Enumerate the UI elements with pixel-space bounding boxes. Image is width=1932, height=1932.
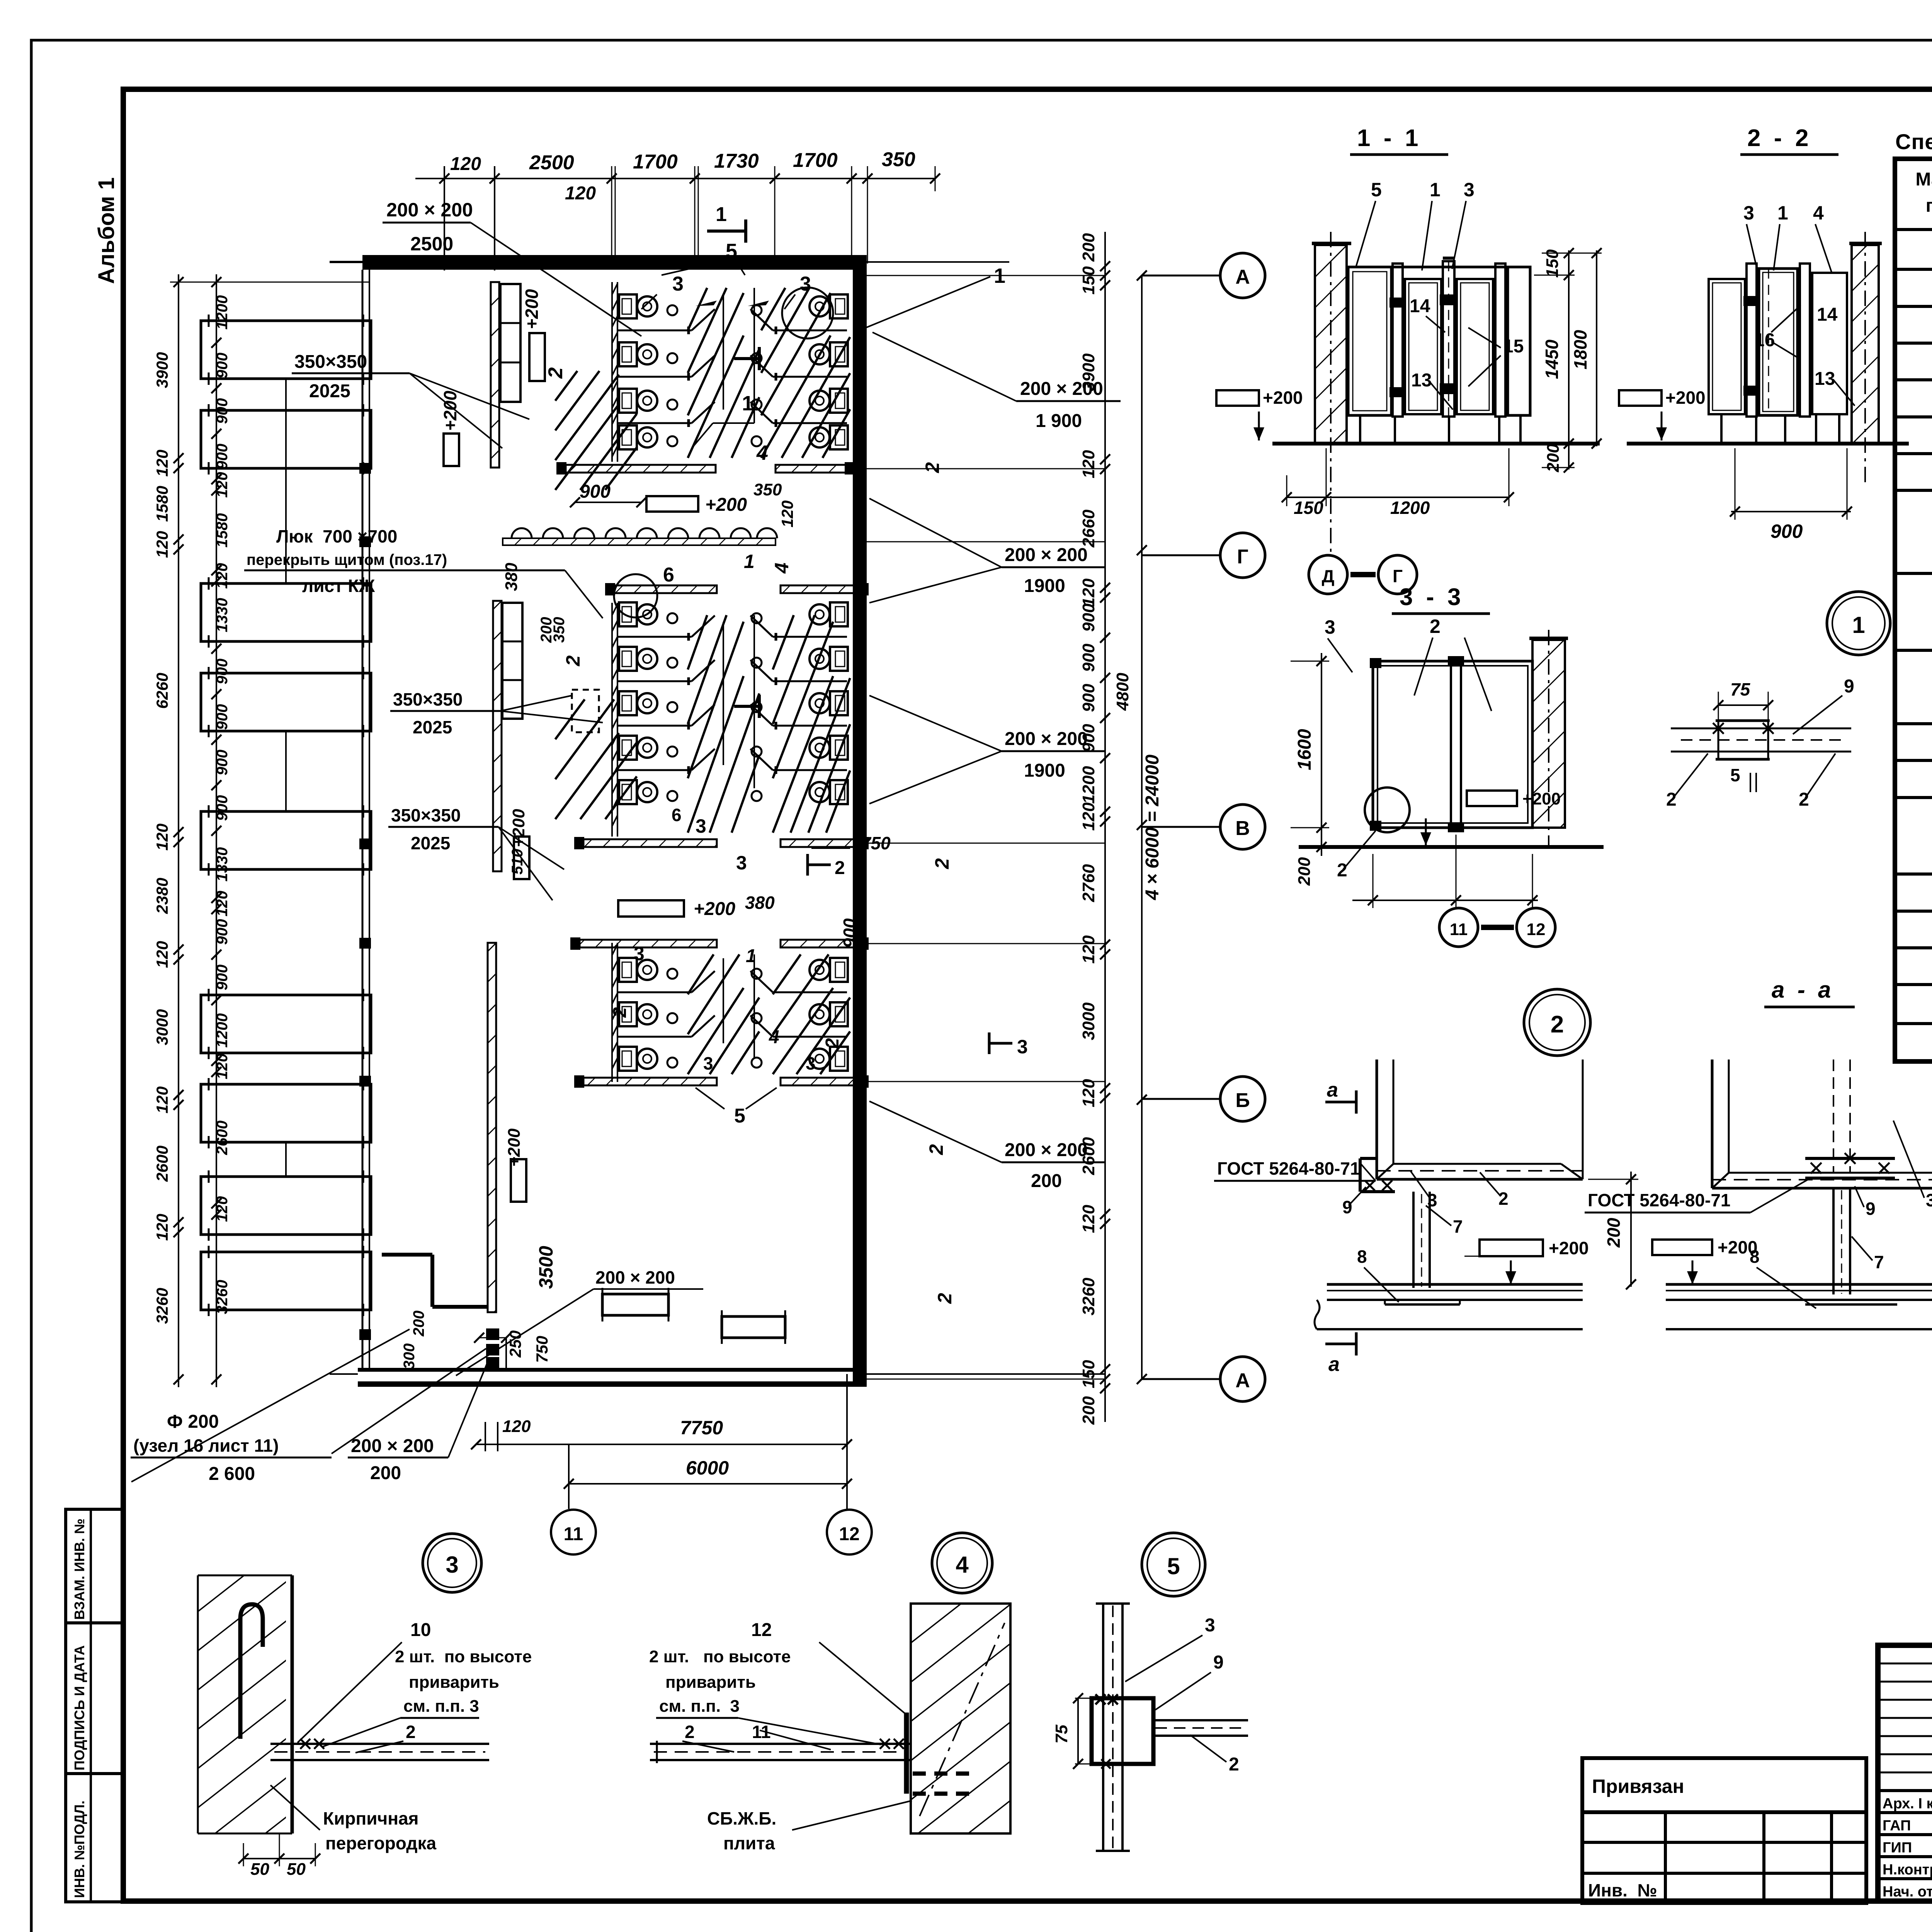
plan bottom wall (358, 1368, 867, 1372)
lower left L wall (382, 1253, 432, 1257)
svg-text:1: 1 (744, 551, 755, 572)
svg-text:10: 10 (410, 1620, 431, 1640)
svg-text:3 - 3: 3 - 3 (1400, 584, 1461, 611)
svg-text:200: 200 (1604, 1218, 1624, 1248)
svg-text:50: 50 (287, 1860, 306, 1879)
svg-text:1450: 1450 (1542, 339, 1562, 379)
detail 4 rail (650, 1743, 911, 1745)
svg-text:ГАП: ГАП (1883, 1818, 1911, 1834)
svg-text:+200: +200 (440, 391, 460, 431)
svg-text:3: 3 (736, 852, 747, 874)
svg-text:Д: Д (1322, 566, 1335, 586)
svg-text:1700: 1700 (793, 149, 838, 172)
svg-text:900: 900 (214, 750, 231, 776)
svg-text:Нач. отд.: Нач. отд. (1883, 1884, 1932, 1900)
svg-text:120: 120 (214, 1054, 231, 1080)
section 3-3 bottom dim (1352, 900, 1538, 901)
svg-text:200 × 200: 200 × 200 (386, 199, 473, 221)
block B top partition (614, 585, 717, 593)
svg-text:+200: +200 (705, 495, 747, 515)
svg-text:Г: Г (1237, 546, 1248, 568)
left outer dim chain (178, 274, 179, 1387)
svg-text:3900: 3900 (153, 352, 171, 388)
svg-text:3: 3 (1017, 1036, 1028, 1058)
svg-text:13: 13 (1815, 369, 1835, 389)
svg-text:(узел 16 лист 11): (узел 16 лист 11) (133, 1435, 279, 1456)
svg-text:Привязан: Привязан (1592, 1776, 1684, 1797)
block B right hatch (773, 615, 794, 670)
svg-text:5: 5 (726, 240, 737, 263)
svg-text:1580: 1580 (153, 486, 171, 522)
axis circle A top (1142, 275, 1220, 277)
extension lines to axis chain (867, 275, 1105, 276)
svg-text:ГИП: ГИП (1883, 1840, 1912, 1856)
svg-text:6000: 6000 (686, 1457, 729, 1479)
svg-text:5: 5 (734, 1105, 745, 1127)
svg-text:900: 900 (1079, 643, 1098, 672)
aa left post (1412, 1192, 1415, 1288)
svg-text:4: 4 (769, 1027, 779, 1048)
svg-text:4800: 4800 (1113, 673, 1132, 711)
svg-text:380: 380 (745, 893, 775, 913)
svg-text:1: 1 (716, 203, 727, 226)
axis circle V (1142, 826, 1220, 828)
svg-text:1 900: 1 900 (1036, 411, 1082, 431)
svg-text:приварить: приварить (409, 1673, 499, 1692)
wall posts lower (486, 1328, 499, 1340)
section 3-3 mid post (1451, 659, 1461, 829)
svg-text:350×350: 350×350 (391, 805, 461, 825)
svg-text:380: 380 (502, 563, 521, 591)
svg-text:900: 900 (214, 398, 231, 424)
svg-text:2500: 2500 (410, 233, 453, 255)
svg-text:13: 13 (1411, 370, 1432, 391)
svg-text:3: 3 (634, 943, 645, 964)
node 1 circle (1827, 592, 1890, 655)
svg-text:поз.: поз. (1926, 196, 1932, 216)
svg-text:1700: 1700 (633, 151, 678, 173)
block A aisle verticals (723, 294, 724, 410)
svg-text:350: 350 (551, 617, 568, 643)
section 1-1 legs (1359, 415, 1361, 444)
svg-text:1600: 1600 (1294, 729, 1315, 770)
svg-text:8: 8 (1750, 1247, 1760, 1267)
plan top wall (362, 255, 867, 270)
left wall junction blocks (359, 463, 371, 474)
right axis dim chain (1104, 268, 1106, 1387)
top dim extension verticals (444, 166, 445, 270)
svg-text:Спецификация щитов и стальных: Спецификация щитов и стальных элементов … (1895, 129, 1932, 154)
svg-text:2: 2 (925, 1144, 947, 1155)
svg-text:лист КЖ: лист КЖ (302, 576, 375, 596)
svg-text:4: 4 (756, 441, 768, 464)
block B hatch luk rect (572, 690, 599, 732)
block C top partition (580, 940, 717, 947)
section mark 3 block C (989, 1042, 1012, 1045)
aa right post (1832, 1188, 1835, 1294)
title block revision grid (1878, 1645, 1932, 1901)
svg-text:900: 900 (214, 704, 231, 730)
svg-text:120: 120 (1079, 450, 1098, 478)
detail 3 wall (198, 1575, 286, 1833)
svg-text:120: 120 (1079, 935, 1098, 964)
svg-text:2: 2 (610, 1007, 630, 1018)
svg-text:3260: 3260 (153, 1288, 171, 1324)
block A right hatch (761, 288, 785, 330)
svg-text:1: 1 (1430, 179, 1440, 201)
right chain 200 top (1100, 261, 1110, 271)
section 1-1 plus200 (1216, 390, 1259, 406)
title block frame (1878, 1645, 1932, 1901)
bottom room pit 1 (602, 1294, 668, 1315)
block B aisle T mark (734, 705, 759, 708)
svg-text:900: 900 (214, 795, 231, 821)
detail 3 rail (270, 1743, 489, 1745)
svg-text:2 шт. по высоте: 2 шт. по высоте (649, 1647, 791, 1666)
svg-text:120: 120 (214, 1196, 231, 1222)
svg-text:200 × 200: 200 × 200 (1020, 379, 1103, 399)
svg-text:а: а (1328, 1353, 1340, 1376)
svg-text:120: 120 (1079, 1079, 1098, 1107)
section 1-1 right dims (1568, 250, 1570, 469)
aa right base plate (1805, 1303, 1897, 1306)
svg-text:+200: +200 (522, 289, 542, 329)
svg-text:1: 1 (746, 946, 756, 966)
hatched partition block B (493, 601, 502, 871)
svg-text:120: 120 (214, 891, 231, 917)
right 24000 line (1141, 276, 1143, 1379)
svg-text:50: 50 (250, 1860, 269, 1879)
block A bottom partition left (566, 465, 716, 473)
section 3-3 floor (1299, 845, 1604, 849)
stamp column table (66, 1509, 124, 1902)
axis circle B (1142, 1098, 1220, 1100)
svg-text:1730: 1730 (714, 150, 759, 172)
section 2-2 floor (1627, 442, 1909, 446)
block C aisle verticals (723, 958, 724, 1043)
svg-text:+200: +200 (509, 809, 528, 847)
axis circle A bottom (1142, 1378, 1220, 1380)
svg-text:2: 2 (835, 858, 845, 878)
block B cabinet cells (502, 603, 522, 719)
svg-text:ВЗАМ. ИНВ. №: ВЗАМ. ИНВ. № (71, 1519, 87, 1620)
detail 3 hook (240, 1604, 263, 1739)
privyazan table (1582, 1758, 1866, 1903)
lower dim lines (505, 1337, 507, 1370)
axis circle 12 (827, 1510, 872, 1554)
svg-text:200 × 200: 200 × 200 (1005, 1140, 1088, 1160)
svg-text:СБ.Ж.Б.: СБ.Ж.Б. (707, 1808, 776, 1828)
aa right floor slab (1666, 1283, 1932, 1286)
section 2-2 pier axis dashdot (1864, 232, 1866, 483)
svg-text:перекрыть щитом (поз.17): перекрыть щитом (поз.17) (247, 551, 447, 568)
svg-text:300: 300 (401, 1344, 418, 1369)
svg-text:3: 3 (1926, 1190, 1932, 1210)
block C floor drains left (667, 969, 677, 979)
axis circle G (1142, 554, 1220, 556)
svg-text:120: 120 (214, 563, 231, 589)
bottom dim 7750 (476, 1444, 847, 1445)
svg-text:200 × 200: 200 × 200 (595, 1267, 675, 1287)
detail 4 plate (904, 1713, 909, 1794)
detail 5 circle (1142, 1533, 1205, 1596)
block A toilets left (619, 294, 657, 318)
block A central wall (611, 282, 613, 462)
block B toilets left (619, 602, 657, 626)
svg-text:+200: +200 (1522, 789, 1561, 808)
svg-text:1580: 1580 (214, 513, 231, 548)
block C aisle hatch (688, 954, 714, 994)
section 3-3 detail circle (1365, 787, 1410, 832)
svg-text:плита: плита (723, 1833, 775, 1853)
svg-text:1: 1 (742, 392, 753, 415)
svg-text:2025: 2025 (309, 381, 350, 401)
svg-text:7: 7 (1453, 1216, 1463, 1236)
svg-text:120: 120 (153, 1214, 171, 1241)
svg-text:а: а (1327, 1079, 1338, 1101)
svg-text:перегородка: перегородка (325, 1833, 437, 1853)
section mark 2 mid (808, 864, 831, 866)
svg-text:2500: 2500 (529, 151, 574, 174)
block C stall partitions left (617, 992, 692, 993)
svg-text:а - а: а - а (1772, 977, 1831, 1003)
svg-text:14: 14 (1410, 296, 1430, 316)
svg-text:120: 120 (153, 823, 171, 850)
block B toilets right (810, 602, 848, 626)
section 3-3 wall (1532, 640, 1565, 828)
svg-text:120: 120 (450, 154, 481, 174)
svg-text:2600: 2600 (214, 1121, 231, 1155)
block A bottom partition right (776, 465, 848, 473)
svg-text:1330: 1330 (214, 847, 231, 882)
svg-text:А: А (1235, 1369, 1250, 1392)
node 1 bar (1671, 728, 1851, 730)
section 1-1 panels (1348, 266, 1530, 269)
svg-text:+200: +200 (694, 899, 735, 919)
section 2-2 legs (1720, 415, 1723, 444)
block B floor drains right (752, 613, 762, 623)
svg-text:11: 11 (564, 1524, 583, 1544)
section 3-3 panel (1373, 661, 1532, 828)
svg-text:ПОДПИСЬ И ДАТА: ПОДПИСЬ И ДАТА (71, 1645, 87, 1770)
block A floor drains right (752, 305, 762, 315)
svg-text:150: 150 (1079, 1360, 1098, 1388)
block A floor drains left (667, 305, 677, 315)
svg-text:1200: 1200 (1390, 498, 1430, 518)
aa left hook plate (1359, 1158, 1362, 1192)
svg-text:Ф 200: Ф 200 (167, 1412, 219, 1432)
block C floor drains right (752, 969, 762, 979)
svg-text:350×350: 350×350 (294, 352, 367, 372)
section mark 1 top (707, 230, 746, 233)
svg-text:1: 1 (1777, 202, 1788, 224)
svg-text:6: 6 (663, 564, 674, 586)
section 1-1 pier axis dashdot (1330, 232, 1332, 497)
axis circles 11 12 pair (1439, 908, 1478, 947)
svg-text:ГОСТ 5264-80-71: ГОСТ 5264-80-71 (1588, 1190, 1731, 1210)
block A partition end blocks (556, 462, 566, 474)
svg-text:2: 2 (1551, 1011, 1564, 1038)
plan right wall (853, 255, 867, 1385)
svg-text:200 × 200: 200 × 200 (1005, 545, 1088, 565)
svg-text:120: 120 (153, 531, 171, 558)
svg-text:Н.контр.: Н.контр. (1883, 1862, 1932, 1878)
svg-text:750: 750 (533, 1336, 551, 1363)
svg-text:3: 3 (1464, 179, 1475, 201)
svg-text:2: 2 (1229, 1754, 1239, 1775)
svg-text:2 шт. по высоте: 2 шт. по высоте (395, 1647, 532, 1666)
svg-text:Марка: Марка (1915, 169, 1932, 190)
svg-text:2380: 2380 (153, 878, 171, 914)
detail 5 plate (1092, 1698, 1153, 1764)
svg-text:14: 14 (1817, 304, 1838, 325)
svg-text:1900: 1900 (1024, 760, 1065, 781)
svg-text:ГОСТ 5264-80-71: ГОСТ 5264-80-71 (1217, 1158, 1360, 1179)
svg-text:2: 2 (922, 462, 943, 473)
block B stall partitions left (617, 636, 692, 638)
plan bottom extension line (330, 1373, 358, 1375)
section 1-1 floor (1272, 442, 1600, 446)
svg-text:3: 3 (800, 273, 811, 295)
svg-text:2 600: 2 600 (209, 1464, 255, 1484)
svg-text:1 - 1: 1 - 1 (1357, 125, 1418, 151)
aa right weld plate (1805, 1157, 1895, 1160)
block A plus200 rect 1 (529, 333, 545, 381)
svg-text:9: 9 (1866, 1199, 1876, 1219)
svg-text:900: 900 (214, 444, 231, 469)
svg-text:2: 2 (931, 858, 953, 869)
svg-text:12: 12 (839, 1524, 859, 1544)
svg-text:75: 75 (1730, 679, 1751, 699)
dim 900 block A (575, 502, 641, 503)
svg-text:1: 1 (1852, 612, 1865, 638)
svg-text:120: 120 (1079, 1204, 1098, 1233)
svg-text:3: 3 (446, 1552, 458, 1578)
section 3-3 left dims (1321, 653, 1322, 856)
block A cabinet cells (500, 284, 520, 402)
svg-text:8: 8 (1357, 1247, 1367, 1267)
svg-text:2025: 2025 (411, 833, 450, 853)
svg-text:2: 2 (1430, 616, 1440, 637)
svg-text:120: 120 (153, 450, 171, 477)
svg-text:900: 900 (214, 353, 231, 379)
svg-text:11: 11 (1450, 920, 1468, 939)
svg-text:А: А (1235, 266, 1250, 288)
detail 5 dim 75 (1077, 1698, 1079, 1764)
svg-text:+200: +200 (1549, 1238, 1589, 1258)
svg-text:120: 120 (502, 1417, 531, 1436)
svg-text:см. п.п. 3: см. п.п. 3 (403, 1697, 479, 1716)
aa right inner dashes (1833, 1060, 1834, 1173)
svg-text:200: 200 (1079, 1396, 1098, 1425)
svg-text:3: 3 (1205, 1615, 1215, 1636)
section mark a lower (1325, 1343, 1356, 1345)
block A plus200 rect 2 (444, 434, 459, 466)
svg-text:200: 200 (1031, 1171, 1062, 1191)
svg-text:Б: Б (1235, 1089, 1250, 1112)
circle 2 detail (1524, 989, 1590, 1056)
leader 1 top right (864, 277, 990, 328)
detail 5 post (1102, 1604, 1104, 1851)
svg-text:120: 120 (153, 1087, 171, 1114)
svg-text:9: 9 (1844, 676, 1854, 697)
svg-text:ИНВ. №ПОДЛ.: ИНВ. №ПОДЛ. (71, 1801, 87, 1898)
aa right box (1712, 1060, 1932, 1188)
svg-text:2: 2 (562, 655, 584, 667)
washbasins (512, 528, 532, 538)
svg-text:6260: 6260 (153, 673, 171, 709)
svg-text:2: 2 (544, 367, 567, 379)
block C toilets right (810, 958, 848, 982)
svg-text:В: В (1235, 817, 1250, 840)
svg-text:3260: 3260 (1079, 1277, 1098, 1315)
detail 5 rail (1153, 1719, 1248, 1721)
svg-text:9: 9 (1342, 1197, 1352, 1217)
section 2-2 panels (1709, 279, 1745, 414)
svg-text:75: 75 (1052, 1725, 1071, 1743)
svg-text:+200: +200 (1263, 388, 1303, 408)
block B bottom partition (583, 839, 717, 847)
block C stall partitions right (773, 992, 847, 993)
svg-text:120: 120 (778, 500, 796, 527)
detail 3 dim 50 50 (243, 1858, 315, 1859)
svg-text:Кирпичная: Кирпичная (323, 1808, 418, 1828)
hatched partition block A (491, 282, 499, 468)
svg-text:4: 4 (1813, 202, 1824, 224)
svg-text:2600: 2600 (153, 1146, 171, 1182)
svg-text:900: 900 (214, 658, 231, 684)
right chain 200 bottom (1100, 1383, 1110, 1393)
dim 750 block B (811, 847, 850, 849)
svg-text:+200: +200 (505, 1128, 524, 1167)
svg-text:4: 4 (956, 1552, 969, 1578)
svg-text:9: 9 (1213, 1652, 1224, 1673)
block A toilets right (810, 294, 848, 318)
block B central wall (611, 603, 613, 837)
svg-text:3: 3 (672, 273, 684, 295)
node 1 dim 75 (1718, 704, 1768, 706)
svg-text:3: 3 (1325, 616, 1335, 638)
svg-text:Арх. I кат.: Арх. I кат. (1883, 1796, 1932, 1812)
plan left wall (362, 270, 364, 1370)
svg-text:120: 120 (214, 472, 231, 498)
svg-text:3: 3 (703, 1053, 713, 1073)
block A shower circle (782, 287, 833, 338)
svg-text:3000: 3000 (1079, 1002, 1098, 1040)
svg-text:900: 900 (214, 919, 231, 945)
svg-text:3260: 3260 (214, 1280, 231, 1314)
section 1-1 axis circles D G (1330, 498, 1332, 553)
svg-text:900: 900 (1770, 520, 1803, 542)
svg-text:200: 200 (1079, 233, 1098, 262)
aa right plus200 (1652, 1240, 1712, 1255)
svg-text:900: 900 (1079, 684, 1098, 712)
svg-text:200: 200 (410, 1311, 427, 1337)
svg-text:Инв. №: Инв. № (1588, 1880, 1657, 1900)
left cabinets row (201, 315, 371, 385)
svg-text:200: 200 (370, 1463, 401, 1483)
left inner dim chain (216, 274, 217, 1387)
svg-text:см. п.п. 3: см. п.п. 3 (659, 1697, 740, 1716)
svg-text:2: 2 (934, 1293, 956, 1304)
svg-text:200 × 200: 200 × 200 (351, 1436, 434, 1456)
bottom room pit 2 (722, 1316, 785, 1338)
svg-text:2: 2 (406, 1722, 416, 1742)
section 2-2 plus200 (1619, 390, 1662, 406)
svg-text:350: 350 (753, 480, 782, 499)
svg-text:5: 5 (1167, 1553, 1180, 1579)
svg-text:900: 900 (1079, 603, 1098, 632)
